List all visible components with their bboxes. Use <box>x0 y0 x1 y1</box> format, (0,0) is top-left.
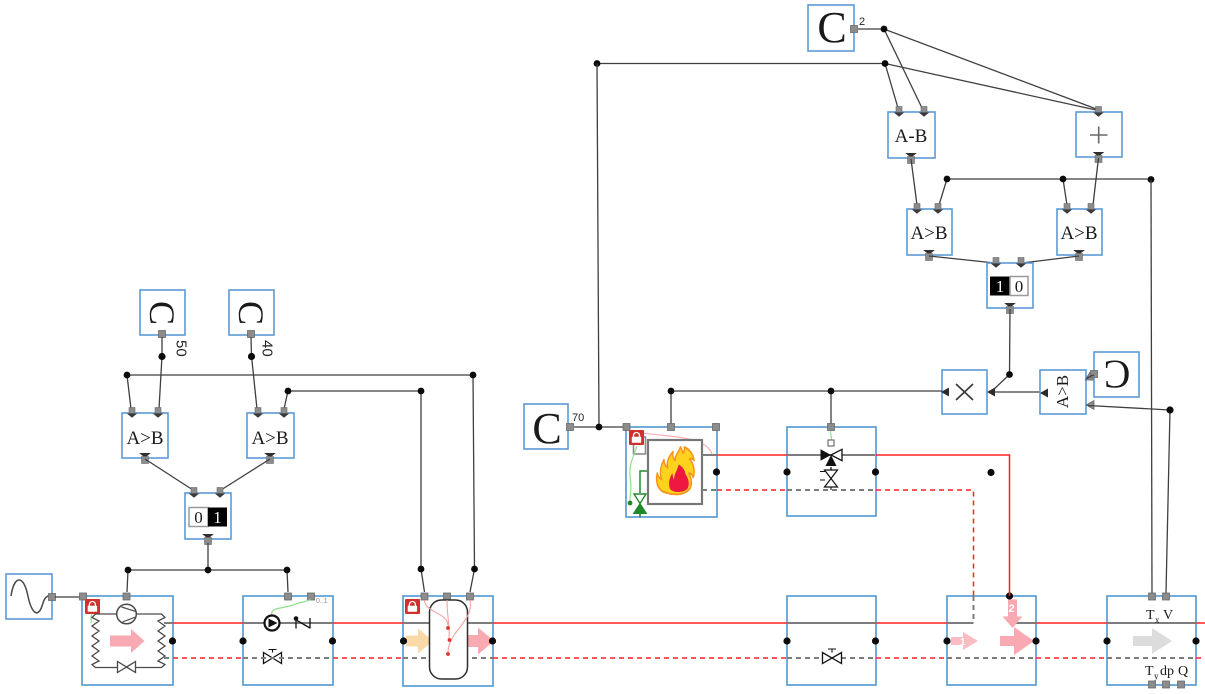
svg-text:0: 0 <box>194 508 203 527</box>
wire tank riser right <box>470 375 475 592</box>
storage tank block <box>403 593 494 686</box>
wire top to A-B input A <box>885 64 898 109</box>
heat pump block <box>80 593 174 685</box>
node mixer top <box>1006 592 1013 599</box>
node junction top wire right <box>882 60 889 67</box>
node bend C40 <box>248 353 255 360</box>
pipe supply valve to mixer <box>876 622 947 624</box>
wire C70 output <box>574 426 626 428</box>
node measurement right <box>1192 637 1199 644</box>
constant C value 70 <box>524 404 574 453</box>
svg-text:C: C <box>532 404 561 453</box>
svg-text:A>B: A>B <box>1060 223 1097 244</box>
wire A<B output to multiplier <box>995 391 1043 393</box>
subtract block A-B <box>888 107 935 164</box>
constant C rotated <box>1091 352 1140 397</box>
svg-text:1: 1 <box>996 277 1005 296</box>
wire C2 to plus input B <box>884 29 1099 110</box>
boiler block <box>623 424 720 518</box>
node valve right <box>872 637 879 644</box>
wire horizontal to pumps <box>128 569 287 571</box>
svg-text:x: x <box>1155 615 1160 625</box>
node bend tank riser2 <box>418 566 425 573</box>
node 3way left <box>783 468 790 475</box>
svg-text:T: T <box>1145 664 1154 679</box>
wire tank sensor top horizontal <box>127 374 473 376</box>
wire tank sensor two horizontal <box>288 390 421 392</box>
node measurement left <box>1103 637 1110 644</box>
mixer tpiece block <box>947 596 1036 685</box>
pipe boiler supply 3way to mixer <box>876 455 1010 596</box>
svg-text:50: 50 <box>173 340 190 357</box>
wire C50 down <box>159 337 162 409</box>
wire drop to A>B input B <box>284 391 288 409</box>
constant C value 50 <box>140 290 185 338</box>
pipe supply heatpump to pump <box>173 622 243 624</box>
node junction 3way <box>828 388 835 395</box>
wire A>B to switch input 2 <box>1022 256 1079 263</box>
svg-text:V: V <box>1163 608 1173 623</box>
svg-text:C: C <box>142 301 182 325</box>
pipe supply mixer to measurement <box>1036 622 1107 624</box>
wire A>B to switch01 input 1 <box>145 459 193 490</box>
pipe boiler supply to 3way <box>717 454 787 456</box>
node bend C50 <box>158 353 165 360</box>
svg-text:1: 1 <box>213 508 222 527</box>
node junction mid wire right <box>1060 176 1067 183</box>
wire drop to boiler <box>670 391 672 424</box>
pipe return valve to mixer <box>876 657 947 659</box>
wire C rotated to A<B <box>1087 375 1094 379</box>
node junction hp <box>125 567 132 574</box>
wire long horizontal top <box>597 63 885 65</box>
wire drop to A>B input A <box>127 375 131 409</box>
node junction corner Tx <box>1148 176 1155 183</box>
node junction sensor2 left <box>285 388 292 395</box>
svg-text:A>B: A>B <box>126 428 163 449</box>
svg-text:C: C <box>817 3 846 52</box>
wire Tx vertical down <box>1151 180 1152 593</box>
node bend tank riser <box>471 566 478 573</box>
node junction C2 <box>881 26 888 33</box>
wire tank riser left <box>421 391 425 592</box>
comparator A>B upper right <box>1057 204 1102 261</box>
svg-text:0: 0 <box>1015 277 1024 296</box>
wire A-B output to A>B <box>911 159 917 205</box>
wire horizontal mid right <box>947 178 1151 180</box>
svg-text:70: 70 <box>572 412 584 424</box>
node junction below switch <box>1006 371 1013 378</box>
svg-text:A>B: A>B <box>1053 375 1072 408</box>
wire V measurement to A<B <box>1088 406 1170 411</box>
wire C40 down <box>251 337 257 409</box>
wire switch01 output <box>207 543 209 570</box>
measurement block <box>1107 593 1196 688</box>
svg-text:y: y <box>1154 671 1159 681</box>
node junction sw <box>205 567 212 574</box>
node 3way right <box>872 468 879 475</box>
wire C2 to A-B input B <box>884 29 922 108</box>
wire drop to 3way valve <box>830 391 832 424</box>
svg-text:Q: Q <box>1178 664 1188 679</box>
node mixer left <box>943 637 950 644</box>
svg-text:2: 2 <box>859 16 865 28</box>
comparator A>B rotated <box>1040 370 1094 414</box>
node junction sensor left <box>124 372 131 379</box>
svg-text:A-B: A-B <box>895 126 928 147</box>
pipe return pump to tank <box>333 657 403 659</box>
comparator A>B lower left <box>122 408 168 464</box>
pipe return tank to valve <box>493 657 787 659</box>
node pump right <box>329 637 336 644</box>
node valve left <box>783 637 790 644</box>
wire V vertical down <box>1166 410 1170 593</box>
wire long vertical left <box>597 64 599 428</box>
pipe supply tank to valve <box>493 622 787 624</box>
node junction C70 <box>596 424 603 431</box>
pipe supply pump to tank <box>333 622 403 624</box>
svg-text:1: 1 <box>960 637 966 648</box>
return valve block <box>787 596 876 685</box>
wire A>B to switch input 1 <box>929 256 995 263</box>
wire drop to right A>B input A <box>1063 179 1067 205</box>
constant C value 40 <box>229 290 274 338</box>
node tank right <box>489 637 496 644</box>
sine generator block <box>6 574 56 619</box>
wire top to plus input A <box>885 64 1096 111</box>
wire sine to heatpump <box>55 596 80 598</box>
switch block 1-0 <box>987 258 1033 314</box>
wire control bus boiler valve multiplier <box>671 390 942 392</box>
adder block plus <box>1076 107 1122 163</box>
svg-text:T: T <box>1146 608 1155 623</box>
node mixer right <box>1032 637 1039 644</box>
svg-text:C: C <box>231 301 271 325</box>
wire diagonal to multiplier <box>992 375 1010 392</box>
pipe boiler return to 3way <box>717 489 787 491</box>
pipe return measurement out <box>1196 657 1205 659</box>
node junction sensor2 right <box>418 388 425 395</box>
pipe supply measurement out <box>1196 622 1205 624</box>
node heatpump right <box>169 637 176 644</box>
wire C2 output <box>858 28 884 30</box>
node tank left <box>400 637 407 644</box>
svg-text:dp: dp <box>1160 664 1174 679</box>
node junction mid wire left <box>944 176 951 183</box>
wire drop to pump <box>287 570 288 592</box>
node junction pump <box>284 567 291 574</box>
svg-text:C: C <box>1104 352 1131 397</box>
wire plus output to right A>B <box>1093 158 1099 205</box>
svg-text:0..1: 0..1 <box>316 598 328 605</box>
pump block <box>243 593 333 685</box>
wire drop to heatpump <box>127 570 128 592</box>
pipe return heatpump to pump <box>173 657 243 659</box>
node pump left <box>239 637 246 644</box>
comparator A>B upper left <box>907 204 952 261</box>
3way valve block <box>787 424 876 517</box>
node floating <box>987 469 994 476</box>
node junction top wire left <box>594 60 601 67</box>
svg-text:A>B: A>B <box>251 428 288 449</box>
svg-text:40: 40 <box>259 340 276 357</box>
node junction V <box>1166 406 1173 413</box>
pipe boiler return 3way to mixer <box>876 490 974 596</box>
node junction sensor right <box>470 372 477 379</box>
wire A>B to switch01 input 2 <box>221 459 270 490</box>
svg-text:2: 2 <box>1009 603 1015 615</box>
node junction boiler <box>668 388 675 395</box>
switch block 0-1 <box>185 488 231 545</box>
node boiler right <box>713 468 720 475</box>
constant C value 2 <box>808 3 858 52</box>
wire switch output down <box>1009 309 1012 375</box>
comparator A>B lower right <box>247 408 294 464</box>
pipe return mixer to measurement <box>1036 657 1107 659</box>
svg-text:A>B: A>B <box>910 223 947 244</box>
wire drop to A>B input B <box>939 179 947 205</box>
multiplier block <box>941 370 995 414</box>
